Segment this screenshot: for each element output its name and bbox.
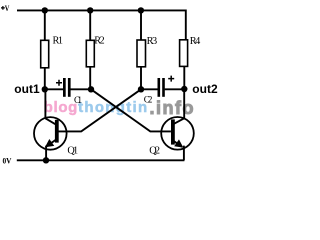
wire Q2 collector <box>173 89 184 124</box>
svg-text:R2: R2 <box>94 36 105 47</box>
capacitor C2 polarity + <box>168 76 174 82</box>
svg-text:blogthongtin: blogthongtin <box>44 99 149 116</box>
svg-text:R3: R3 <box>147 36 158 47</box>
svg-text:C2: C2 <box>144 95 153 105</box>
wire Q1 base cross-coupling from node C <box>58 89 141 131</box>
svg-text:Q1: Q1 <box>67 145 78 156</box>
wire out1 to C1 <box>45 88 63 90</box>
resistor R1 <box>41 40 49 68</box>
svg-text:V: V <box>5 3 10 13</box>
wire Q2 emitter <box>173 140 184 160</box>
wire R3 leads <box>140 10 142 89</box>
resistor R4 <box>180 40 188 67</box>
svg-text:0V: 0V <box>3 157 12 166</box>
node out2 <box>181 86 187 92</box>
label +V <box>1 6 5 10</box>
wire Q1 emitter <box>46 140 56 161</box>
resistor R3 <box>137 40 146 67</box>
svg-text:.info: .info <box>150 98 196 118</box>
capacitor C2 plates <box>158 78 165 97</box>
capacitor C1 polarity + <box>56 80 62 86</box>
node top R1 <box>42 7 48 13</box>
transistor Q1 <box>34 117 67 150</box>
wire C2 to out2 <box>165 88 185 90</box>
node C C2-R3 <box>138 86 144 92</box>
svg-text:out1: out1 <box>14 82 40 96</box>
capacitor C1 plates <box>63 78 71 97</box>
transistor Q2 <box>161 117 194 150</box>
wire Q2 base cross-coupling from node B <box>91 89 171 131</box>
node emitter Q1 on 0V rail <box>43 157 49 163</box>
node B C1-R2 <box>88 86 94 92</box>
svg-text:Q2: Q2 <box>149 146 160 157</box>
wire Q1 collector <box>45 89 55 124</box>
wire R4 bottom lead <box>183 66 185 89</box>
watermark blogthongtin.info <box>44 98 195 118</box>
svg-text:C1: C1 <box>74 96 82 106</box>
wire node C to C2 <box>141 88 158 90</box>
svg-text:out2: out2 <box>192 82 218 96</box>
node top R2 <box>87 7 93 13</box>
wire R1 leads <box>44 10 46 89</box>
node top R3 <box>138 7 144 13</box>
wire top rail +V <box>17 10 186 40</box>
svg-text:R1: R1 <box>53 36 64 47</box>
node out1 <box>42 86 48 92</box>
resistor R2 <box>86 40 94 67</box>
wire bottom rail 0V <box>17 159 185 161</box>
wire R2 leads <box>89 10 91 89</box>
svg-text:R4: R4 <box>190 36 201 47</box>
wire C1 to node B <box>71 88 91 90</box>
